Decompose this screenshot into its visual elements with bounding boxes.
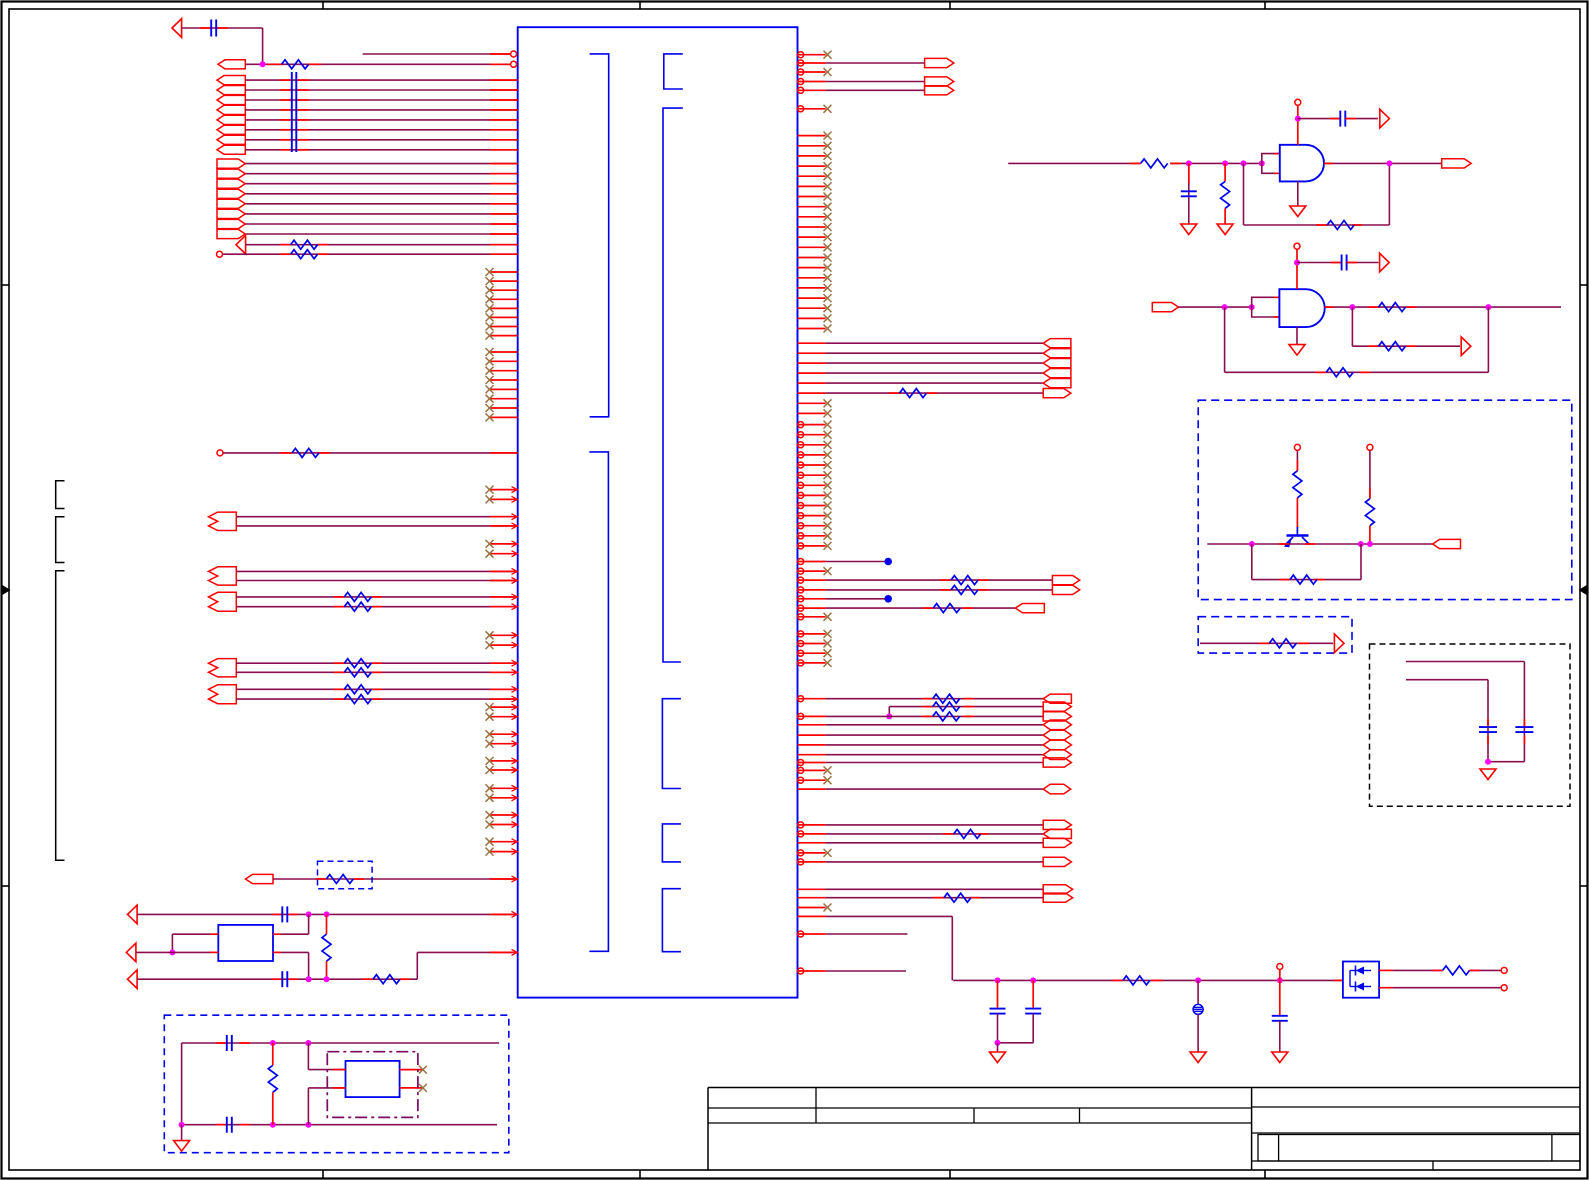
IC pin stub RX6 [798, 185, 826, 187]
wire g1 res branch red2 [1224, 208, 1226, 224]
connector arrow row 879 [246, 874, 274, 883]
IC pin stub R763 [798, 762, 826, 764]
junction g2 a [1222, 304, 1228, 310]
nc stub L1-2 [490, 280, 518, 282]
wire g1 cap branch [1188, 163, 1190, 224]
IC pin stub RCX10 [798, 515, 826, 517]
IC pin circle RCX4 [798, 452, 804, 458]
capacitor top-left [211, 20, 216, 37]
wire R862 [826, 861, 1044, 863]
wire row 879 [273, 878, 518, 880]
IC pin stub RCX2-3 [798, 652, 826, 654]
IC pin circle R699 [798, 696, 804, 702]
no-connect X RCX6 [824, 471, 832, 479]
border center arrow left [2, 585, 11, 596]
wire inA6 [245, 129, 517, 131]
IC pin stub R780 [798, 779, 826, 781]
border tick bottom 1 [322, 1170, 324, 1178]
wire g2 fb bottom [1225, 371, 1489, 373]
IC pin stub RX5 [798, 175, 826, 177]
connector arrow R63 [925, 58, 954, 67]
arrow g2 branch [1461, 337, 1471, 356]
IC pin circle R72 [798, 69, 804, 75]
no-connect X pairX4-2 [486, 713, 494, 721]
junction g2 out [1349, 304, 1355, 310]
wire Q1 R2 top [1369, 450, 1371, 498]
AND gate U2A body [1280, 145, 1324, 182]
IC pin circle R571 [798, 568, 804, 574]
IC pin stub R109 [798, 108, 826, 110]
resistor R898 [944, 893, 971, 902]
resistor osc2 stub top [272, 1043, 274, 1065]
wire row 245 [245, 244, 517, 246]
pin chevron pairX6-2 [512, 767, 518, 773]
ground bm 1 [990, 1043, 1006, 1063]
arrow g1 power [1380, 109, 1390, 128]
junction row 64 [260, 61, 266, 67]
IC pin stub R862 [798, 861, 826, 863]
no-connect X RX1 [824, 132, 832, 140]
AND gate U2A input stubs [1274, 153, 1280, 155]
junction bm c [1195, 977, 1201, 983]
no-connect X RCX9 [824, 502, 832, 510]
no-connect X pairX9-2 [486, 848, 494, 856]
wire bm cap2 stub [1032, 980, 1034, 1008]
resistor g1 pulldown [1221, 181, 1230, 208]
IC pin stub R608 [798, 607, 826, 609]
wire crystal left top [172, 933, 210, 935]
connector arrow R81 [925, 77, 954, 86]
IC pin stub RCX2-1 [798, 633, 826, 635]
wire pairE-2 [236, 698, 517, 700]
IC pin stub RCX2-4 [798, 662, 826, 664]
pin chevron pairA-2 [512, 523, 518, 529]
resistor g2 out [1379, 303, 1406, 312]
junction crystal left [169, 949, 175, 955]
wire R735 [826, 734, 1044, 736]
wire R916 [826, 915, 953, 917]
osc2 top wire [182, 1042, 499, 1044]
junction oscB-2 [324, 976, 330, 982]
wire R599 [826, 598, 885, 600]
IC pin stub R725 [798, 724, 826, 726]
IC pin circle R90 [798, 87, 804, 93]
connector arrow inA7 [217, 135, 245, 144]
resistor g1 feedback [1327, 221, 1354, 230]
connector arrow R825 [1043, 820, 1071, 829]
IC pin circle RCX3 [798, 442, 804, 448]
nc stub pairX9-2 [490, 851, 518, 853]
no-connect X RCX2-4 [824, 659, 832, 667]
no-connect X R54 [824, 51, 832, 59]
no-connect X pairX5-1 [486, 730, 494, 738]
IC pin stub R571 [798, 570, 826, 572]
connector arrow R393 [1043, 389, 1071, 398]
IC pin stub RX7 [798, 196, 826, 198]
no-connect X RX3 [824, 152, 832, 160]
power pin circle Q1 R2 [1367, 444, 1373, 450]
IC pin stub RCX5 [798, 464, 826, 466]
connector arrow outB1 [217, 159, 245, 168]
IC internal bracket E [662, 699, 681, 789]
wire g2 output [1325, 306, 1561, 308]
AND gate U2B body [1279, 289, 1324, 327]
IC U1 body [518, 27, 798, 997]
junction bm d [1277, 977, 1283, 983]
wire g2 fb down [1224, 307, 1226, 372]
IC pin stub RCX2 [798, 434, 826, 436]
resistor osc stub bottom [326, 961, 328, 979]
wire inA3 [245, 99, 517, 101]
junction oscB-1 [306, 976, 312, 982]
dashed box transistor circuit [1198, 400, 1572, 599]
wire crystal right top [281, 933, 309, 935]
wire g1 gnd [1297, 181, 1299, 206]
connector arrow R707 [1043, 702, 1071, 711]
connector arrow R580 [1052, 576, 1079, 585]
no-connect X RX10 [824, 223, 832, 231]
border tick top 4 [1264, 1, 1266, 9]
connector arrow outB6 [217, 209, 245, 218]
pin chevron pairX1-2 [512, 496, 518, 502]
connector arrow inA1 [217, 76, 245, 85]
wire capbox right vert [1523, 662, 1525, 762]
IC pin circle R770 [798, 767, 804, 773]
no-connect X R780 [824, 776, 832, 784]
junction Q1 a [1249, 541, 1255, 547]
connector arrow inA4 [217, 105, 245, 114]
wire row 54 to IC [363, 53, 511, 55]
IC pin stub RCX3 [798, 444, 826, 446]
junction Q1 c [1367, 541, 1373, 547]
junction g1 b [1222, 160, 1228, 166]
no-connect X RX12 [824, 243, 832, 251]
junction bm a [995, 977, 1001, 983]
ground g1 res [1217, 224, 1233, 235]
wire g2 gnd [1296, 327, 1298, 345]
crystal Y2 stub BR [400, 1087, 423, 1089]
no-connect X RCX13 [824, 542, 832, 550]
wire R745 [826, 744, 1044, 746]
IC pin stub R699 [798, 698, 826, 700]
power pin circle bm [1277, 964, 1283, 970]
wire row 453 [223, 452, 518, 454]
resistor R699 [933, 694, 960, 703]
no-connect X RX11 [824, 233, 832, 241]
pin chevron pairB-1 [512, 568, 518, 574]
junction g2 power [1294, 260, 1300, 266]
pin chevron pairX5-2 [512, 741, 518, 747]
wire capbox join [1488, 761, 1524, 763]
no-connect X R413 [824, 409, 832, 417]
wire pairD-2 [236, 671, 517, 673]
connector arrow outB4 [217, 189, 245, 198]
pin chevron pairX3-2 [512, 642, 518, 648]
no-connect X R571 [824, 567, 832, 575]
nc stub pairX3-2 [490, 644, 518, 646]
power pin circle Q1 R1 [1294, 444, 1300, 450]
IC pin stub RX20 [798, 328, 826, 330]
connector arrow inA8 [217, 145, 245, 154]
no-connect X L1-8 [486, 332, 494, 340]
resistor gate1 input [1141, 159, 1168, 168]
resistor R608 [933, 604, 960, 613]
resistor bottom main [1123, 976, 1150, 985]
resistor Q1 collector pullup [1365, 499, 1374, 526]
connector arrow R343-4 [1043, 369, 1071, 378]
border tick right 1 [1580, 284, 1588, 286]
no-connect X RX18 [824, 304, 832, 312]
no-connect X RX17 [824, 294, 832, 302]
wire bm cap1 stub [997, 980, 999, 1008]
IC internal bracket D [589, 452, 608, 951]
wire opto out top2 [1470, 969, 1501, 971]
IC pin stub R843 [798, 842, 826, 844]
no-connect X RX16 [824, 284, 832, 292]
crystal pin stub TL [210, 933, 218, 935]
pin chevron pairX7-1 [512, 785, 518, 791]
no-connect X R853 [824, 849, 832, 857]
connector arrow R343-1 [1043, 339, 1071, 348]
border tick bottom 3 [949, 1170, 951, 1178]
nc stub L1-4 [490, 298, 518, 300]
pin circle row 254 [217, 251, 223, 257]
wire g2 input [1179, 306, 1252, 308]
IC pin stub R908 [798, 907, 826, 909]
connector arrow R608 [1015, 604, 1044, 613]
wire Q1 R2 bottom [1369, 526, 1371, 544]
capacitor osc2 top [227, 1035, 232, 1051]
dash-dot box crystal [327, 1052, 418, 1118]
IC pin stub R413 [798, 412, 826, 414]
IC pin stub R343-1 [798, 342, 826, 344]
pin circle row 453 [217, 450, 223, 456]
wire Q1 loop left [1251, 544, 1253, 580]
IC pin stub RCX2-2 [798, 643, 826, 645]
no-connect X RX8 [824, 203, 832, 211]
wire g1 fb down [1243, 163, 1245, 225]
dashed box oscillator [164, 1015, 509, 1152]
wire Q1 loop right [1360, 544, 1362, 580]
nc stub pairX1-2 [490, 498, 518, 500]
wire R763 [826, 762, 1044, 764]
wire outB4 [245, 193, 517, 195]
wire top-left cap row [182, 27, 263, 29]
nc stub pairX7-1 [490, 787, 518, 789]
wire g1 fb bottom [1244, 224, 1390, 226]
wire inA5 [245, 119, 517, 121]
resistor row 245 [291, 240, 318, 249]
wire R789 [826, 788, 1044, 790]
wire R834 [826, 833, 1044, 835]
wire g1 power cap [1298, 118, 1341, 120]
ground bm 2 [1190, 1052, 1206, 1063]
IC pin stub R889 [798, 888, 826, 890]
IC pin circle RCX6 [798, 472, 804, 478]
no-connect X R72 [824, 68, 832, 76]
no-connect X RCX2 [824, 431, 832, 439]
nc stub L1-7 [490, 326, 518, 328]
no-connect X L1-1 [486, 268, 494, 276]
no-connect X pairX5-2 [486, 740, 494, 748]
junction g1 power [1295, 116, 1301, 122]
wire inA1 [245, 79, 517, 81]
IC pin circle RCX2-2 [798, 641, 804, 647]
no-connect X pairX7-2 [486, 794, 494, 802]
nc stub L1-6 [490, 316, 518, 318]
bus bar left 2 [295, 72, 297, 152]
wire R343-4 [826, 372, 1044, 374]
wire bm cap3 stub [1279, 980, 1281, 1015]
IC pin circle R934 [798, 931, 804, 937]
osc2 bottom wire [182, 1124, 497, 1126]
IC pin circle R599 [798, 596, 804, 602]
IC pin stub RCX7 [798, 484, 826, 486]
capacitor capbox right [1515, 727, 1533, 732]
pin chevron pairX2-2 [512, 551, 518, 557]
connector arrow inA3 [217, 95, 245, 104]
IC pin stub RCX12 [798, 535, 826, 537]
nc stub pairX5-2 [490, 743, 518, 745]
connector arrow R763 [1043, 758, 1071, 767]
IC pin stub R343-5 [798, 382, 826, 384]
wire R90 [826, 89, 925, 91]
net stub dot R561 [884, 558, 892, 566]
IC pin stub R72 [798, 71, 826, 73]
IC pin stub R343-3 [798, 362, 826, 364]
wire corner down to row 64 [262, 28, 264, 64]
IC pin circle R862 [798, 859, 804, 865]
wire pairA-1 [236, 516, 517, 518]
wire capbox top [1406, 661, 1524, 663]
no-connect X L2-6 [486, 395, 494, 403]
pin chevron pairX1-1 [512, 487, 518, 493]
IC pin stub R916 [798, 915, 826, 917]
bus bar left 1 [291, 72, 293, 152]
arrow row 245 [236, 235, 246, 254]
capacitor bm 2 [1025, 1009, 1041, 1014]
nc stub L2-3 [490, 370, 518, 372]
optocoupler U3 body [1343, 962, 1379, 998]
junction g1 c [1241, 160, 1247, 166]
connector arrow R735 [1043, 730, 1071, 740]
no-connect X pairX7-1 [486, 784, 494, 792]
IC pin stub R81 [798, 81, 826, 83]
no-connect X pairX4-1 [486, 703, 494, 711]
wire crystal right vert down [308, 952, 310, 979]
opto pin BR [1379, 987, 1392, 989]
pin chevron pairX4-2 [512, 714, 518, 720]
no-connect X pairX1-2 [486, 495, 494, 503]
no-connect X Y2 top [419, 1066, 427, 1074]
wire pairB-2 [236, 580, 517, 582]
resistor pairC-1 [344, 592, 371, 601]
wire R825 [826, 824, 1044, 826]
IC pin circle R109 [798, 106, 804, 112]
nc stub pairX8-1 [490, 814, 518, 816]
wire bm cap1 down [997, 1014, 999, 1043]
no-connect X pairX3-2 [486, 641, 494, 649]
wire g2 branch [1352, 345, 1460, 347]
resistor R590 [951, 585, 978, 594]
wire gate1 input [1008, 162, 1140, 164]
ground capbox [1480, 769, 1496, 780]
crystal Y1 body [218, 925, 273, 961]
ground g1 [1290, 206, 1306, 217]
connector arrow pair pairC [209, 592, 237, 611]
IC pin stub R561 [798, 561, 826, 563]
arrow small box [1334, 634, 1344, 653]
IC pin circle RCX12 [798, 533, 804, 539]
IC pin circle R716 [798, 713, 804, 719]
no-connect X RCX2-3 [824, 649, 832, 657]
no-connect X RX14 [824, 264, 832, 272]
wire outB7 [245, 223, 517, 225]
dashed box series resistor [1198, 617, 1352, 653]
nc stub pairX6-2 [490, 769, 518, 771]
connector arrow R716 [1043, 712, 1071, 721]
wire g1 res branch red [1224, 163, 1226, 181]
IC pin circle RCX7 [798, 482, 804, 488]
IC pin stub R971 [798, 970, 826, 972]
connector arrow inA6 [217, 125, 245, 134]
IC pin circle R63 [798, 60, 804, 66]
IC pin stub R90 [798, 89, 826, 91]
wire small box [1200, 642, 1333, 644]
resistor R580 [951, 576, 978, 585]
connector arrow R90 [925, 86, 954, 95]
IC pin circle R608 [798, 605, 804, 611]
connector arrow R745 [1043, 740, 1071, 750]
connector arrow R789 [1043, 784, 1071, 794]
resistor row 64 [282, 60, 309, 69]
resistor Q1 feedback [1290, 575, 1317, 584]
connector arrow outB3 [217, 179, 245, 188]
connector arrow R725 [1043, 720, 1071, 730]
wire outB8 [245, 233, 517, 235]
IC pin stub R770 [798, 769, 826, 771]
osc2 xtal top lead [308, 1069, 345, 1071]
crystal pin stub BL [210, 951, 218, 953]
nc stub pairX2-1 [490, 543, 518, 545]
pin chevron pairB-2 [512, 578, 518, 584]
IC pin stub RX12 [798, 246, 826, 248]
IC pin circle RCX9 [798, 503, 804, 509]
osc2 xtal left vert top [307, 1043, 309, 1070]
wire pairB-1 [236, 570, 517, 572]
wire osc row A [137, 913, 518, 915]
IC pin stub RCX8 [798, 494, 826, 496]
connector arrow R343-5 [1043, 379, 1071, 388]
connector arrow R590 [1052, 585, 1079, 594]
no-connect X RX6 [824, 182, 832, 190]
IC pin stub RX2 [798, 145, 826, 147]
IC pin circle RCX13 [798, 543, 804, 549]
wire R889 [826, 888, 1044, 890]
junction osc2 top2 [305, 1040, 311, 1046]
pin circle out top [1501, 967, 1507, 973]
transistor Q1 [1284, 527, 1310, 547]
power arrow top-left [172, 19, 182, 38]
IC pin circle R825 [798, 822, 804, 828]
capacitor g1 [1181, 191, 1197, 196]
no-connect X RCX3 [824, 441, 832, 449]
IC internal bracket C [663, 108, 683, 662]
optocoupler U3 internals [1350, 966, 1371, 992]
IC pin stub RX8 [798, 206, 826, 208]
IC pin circle row 54 [511, 51, 517, 57]
resistor osc vertical [322, 934, 331, 961]
